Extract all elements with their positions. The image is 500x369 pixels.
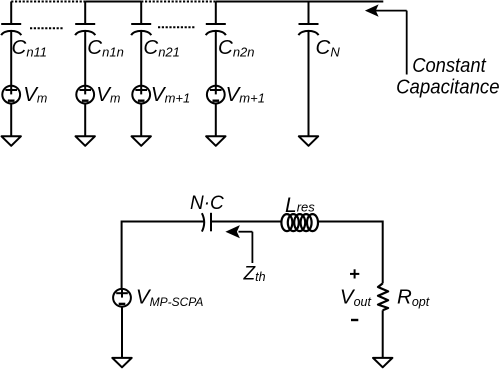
- wire top rail solid segment 2: [216, 1, 383, 3]
- ground branch 3: [132, 136, 151, 146]
- ground branch 2: [76, 136, 95, 146]
- resistor Ropt: [378, 283, 388, 310]
- wire top rail dotted segment 2: [141, 1, 216, 3]
- capacitor N·C: [202, 213, 211, 232]
- source Vm branch 1: [2, 85, 20, 103]
- capacitor Cn21: [131, 24, 151, 35]
- wire branch 1 top: [10, 2, 12, 24]
- node ellipsis between Cn21 and Cn2n: [158, 26, 196, 28]
- wire right vertical below resistor: [382, 310, 384, 358]
- wire top rail dotted segment 1: [11, 1, 85, 3]
- wire branch 3 mid: [140, 32, 142, 86]
- svg-text:N·C: N·C: [190, 193, 224, 214]
- svg-text:Ropt: Ropt: [397, 286, 430, 310]
- wire right vertical above resistor: [382, 221, 384, 284]
- wire branch 5 bottom: [308, 32, 310, 137]
- wire below source: [121, 306, 123, 358]
- svg-text:Constant: Constant: [412, 54, 487, 77]
- ground branch 5: [299, 136, 318, 146]
- svg-text:Vm+1: Vm+1: [226, 83, 265, 106]
- svg-text:CN: CN: [316, 36, 341, 59]
- wire branch 3 bottom: [140, 103, 142, 136]
- svg-text:Vm: Vm: [96, 83, 120, 106]
- svg-text:Vout: Vout: [340, 286, 372, 310]
- wire branch 1 mid: [10, 32, 12, 86]
- arrow annotation constant capacitance: [365, 4, 407, 74]
- svg-text:VMP-SCPA: VMP-SCPA: [136, 286, 203, 310]
- ground branch 4: [206, 136, 225, 146]
- svg-text:Lres: Lres: [285, 194, 315, 217]
- source Vm+1 branch 4: [207, 85, 225, 103]
- label plus sign Vout: [350, 269, 359, 278]
- wire branch 2 mid: [84, 32, 86, 86]
- wire branch 1 bottom: [10, 103, 12, 136]
- ground branch 1: [2, 136, 21, 146]
- source Vm+1 branch 3: [132, 85, 150, 103]
- wire left vertical of bottom circuit: [121, 221, 123, 290]
- wire branch 4 top: [215, 2, 217, 24]
- source VMP-SCPA: [113, 289, 131, 307]
- wire branch 2 top: [84, 2, 86, 24]
- capacitor Cn1n: [75, 24, 95, 35]
- wire branch 4 mid: [215, 32, 217, 86]
- label minus sign Vout: [351, 319, 358, 321]
- svg-text:Vm+1: Vm+1: [151, 83, 190, 106]
- svg-text:Zth: Zth: [243, 264, 266, 285]
- ground below resistor: [373, 358, 392, 367]
- inductor Lres: [281, 214, 318, 231]
- capacitor CN: [299, 24, 319, 35]
- node ellipsis between Cn11 and Cn1n: [30, 27, 63, 29]
- label Constant Capacitance: [396, 54, 500, 98]
- ground below source: [112, 358, 131, 367]
- wire branch 5 top: [308, 2, 310, 24]
- capacitor Cn2n: [206, 24, 226, 35]
- wire between inductor and right corner: [319, 221, 383, 223]
- svg-text:Cn1n: Cn1n: [87, 36, 124, 59]
- wire branch 3 top: [140, 2, 142, 24]
- svg-text:Vm: Vm: [23, 83, 47, 106]
- wire branch 2 bottom: [84, 103, 86, 136]
- source Vm branch 2: [76, 85, 94, 103]
- arrow Zth: [225, 225, 252, 263]
- wire top rail solid segment 1: [85, 1, 141, 3]
- wire bottom circuit top left horizontal: [122, 221, 204, 223]
- wire branch 4 bottom: [215, 103, 217, 136]
- svg-text:Cn2n: Cn2n: [218, 36, 255, 59]
- svg-text:Capacitance: Capacitance: [396, 75, 500, 98]
- svg-text:Cn11: Cn11: [12, 36, 48, 59]
- capacitor Cn11: [1, 24, 21, 35]
- svg-text:Cn21: Cn21: [143, 36, 180, 59]
- wire between capacitor and inductor: [211, 221, 281, 223]
